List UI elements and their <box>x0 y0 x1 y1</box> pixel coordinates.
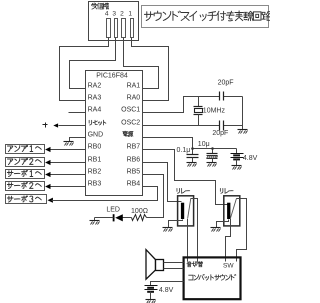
svg-text:20pF: 20pF <box>212 130 228 137</box>
svg-text:OSC1: OSC1 <box>121 107 140 114</box>
svg-text:RA4: RA4 <box>88 107 102 114</box>
svg-text:RB3: RB3 <box>88 181 102 188</box>
svg-text:RB0: RB0 <box>88 144 102 151</box>
svg-text:RA1: RA1 <box>127 83 141 90</box>
svg-text:10μ: 10μ <box>198 141 210 148</box>
svg-text:LED: LED <box>106 207 120 214</box>
svg-text:RB6: RB6 <box>127 157 141 164</box>
svg-text:PIC16F84: PIC16F84 <box>96 73 128 80</box>
svg-text:SW: SW <box>223 263 234 270</box>
svg-text:1: 1 <box>128 10 132 17</box>
svg-text:3: 3 <box>112 10 116 17</box>
svg-text:RA3: RA3 <box>88 95 102 102</box>
svg-text:GND: GND <box>88 132 104 139</box>
svg-text:RA2: RA2 <box>88 83 102 90</box>
svg-text:RB2: RB2 <box>88 169 102 176</box>
svg-text:4.8V: 4.8V <box>159 287 174 294</box>
svg-text:4.8V: 4.8V <box>243 155 258 162</box>
svg-text:RB1: RB1 <box>88 157 102 164</box>
svg-text:0.1μ: 0.1μ <box>177 147 191 154</box>
svg-text:RB5: RB5 <box>127 169 141 176</box>
svg-text:RA0: RA0 <box>127 95 141 102</box>
svg-text:RB4: RB4 <box>127 181 141 188</box>
svg-text:10MHz: 10MHz <box>203 108 226 115</box>
svg-text:RB7: RB7 <box>127 144 141 151</box>
svg-text:OSC2: OSC2 <box>121 120 140 127</box>
svg-text:2: 2 <box>120 10 124 17</box>
svg-text:100Ω: 100Ω <box>131 208 148 215</box>
svg-text:4: 4 <box>105 10 109 17</box>
svg-text:20pF: 20pF <box>218 80 234 87</box>
